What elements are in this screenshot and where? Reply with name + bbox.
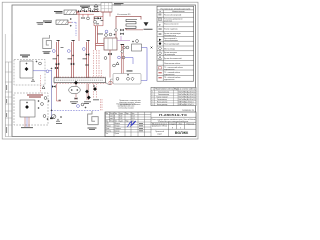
DB2 plus — [26, 102, 28, 104]
svg-text:Наименование: Наименование — [172, 11, 184, 13]
valve K10 — [52, 85, 56, 88]
svg-text:Место отбора: Место отбора — [164, 48, 175, 50]
left stamp strip — [5, 34, 12, 137]
valve K6 — [120, 29, 123, 31]
flare tree symbol — [93, 4, 98, 12]
heat exchanger E1 label — [54, 11, 63, 13]
wire red from E2 — [68, 21, 72, 23]
title block grid right — [151, 117, 196, 136]
DB2 red label — [27, 95, 43, 98]
svg-text:Насосный (напорный): Насосный (напорный) — [164, 13, 182, 16]
star K10 — [42, 86, 45, 89]
svg-text:загазованности: загазованности — [164, 35, 176, 37]
svg-text:трубопроводов не показана: трубопроводов не показана — [120, 104, 141, 106]
DB1 top symbols — [36, 61, 38, 63]
cooler coil — [125, 20, 137, 29]
instrument blue small — [105, 30, 108, 33]
outlet instrument red — [109, 81, 112, 84]
DB1 star — [32, 79, 35, 82]
riser R2 valve — [71, 63, 75, 66]
riser R1 instrument — [52, 50, 55, 53]
svg-text:Насос дозирующий: Насос дозирующий — [164, 43, 179, 46]
wire blue dashed from E2 — [72, 22, 77, 36]
svg-text:П-18: П-18 — [119, 118, 122, 120]
valve under pump — [75, 97, 78, 99]
svg-text:изм.2: изм.2 — [110, 118, 114, 120]
svg-text:№: № — [159, 10, 161, 13]
collector outlet — [106, 82, 109, 84]
valve K7 — [120, 33, 123, 35]
wire red into T1 — [96, 44, 105, 46]
valve K8 — [108, 53, 112, 56]
inner drawing frame — [12, 5, 196, 137]
DB2 blue drop — [26, 117, 28, 127]
svg-text:Петров: Петров — [115, 125, 120, 127]
triangle sym — [116, 62, 119, 65]
GV box — [132, 44, 142, 51]
red dashed risers to sensor line — [101, 99, 103, 110]
valve drop K3b — [82, 17, 85, 19]
gray coil W1 — [43, 35, 52, 49]
svg-text:Насос дозатор: Насос дозатор — [157, 101, 167, 103]
svg-text:Орлов: Орлов — [115, 133, 120, 135]
svg-text:Разраб.: Разраб. — [106, 125, 112, 127]
blue signature — [128, 121, 136, 127]
sensor S1 — [77, 105, 80, 108]
pump P1 marks — [71, 89, 73, 91]
PVK inst 2 — [127, 77, 130, 80]
svg-text:Иванов: Иванов — [115, 123, 120, 125]
svg-text:ГИП: ГИП — [106, 123, 109, 125]
labels under drops — [84, 100, 99, 104]
wire red from E1 — [77, 12, 80, 41]
instrument I2 — [94, 20, 97, 23]
red dashed stub above collector end — [100, 70, 102, 78]
riser R3 label — [83, 58, 88, 61]
valve K2 — [84, 10, 87, 12]
riser R2 instrument — [67, 50, 70, 53]
svg-text:Лист: Лист — [114, 113, 117, 115]
wire cooler out — [126, 28, 143, 30]
svg-text:Обозначение кабеля: Обозначение кабеля — [164, 63, 180, 65]
riser R0 — [56, 60, 58, 78]
x-mark at line end — [151, 47, 153, 49]
sensor S2 — [81, 103, 84, 106]
svg-text:отдел: отдел — [157, 133, 161, 135]
svg-text:Реконструкция здания литейного: Реконструкция здания литейного цеха. Узл… — [151, 118, 195, 121]
boiler label — [114, 3, 124, 5]
gray coil W2 — [88, 111, 99, 125]
plus darkblue — [51, 68, 53, 70]
pump M1 blade — [52, 115, 56, 118]
junction D1 — [74, 81, 78, 85]
darkblue end blob — [50, 118, 53, 120]
svg-text:№док: №док — [119, 113, 123, 115]
pump symbol M1 — [52, 114, 56, 118]
PVK inst 1 — [116, 77, 119, 80]
instrument under T1 — [104, 57, 107, 60]
valve K9 — [55, 67, 58, 69]
red dash drop left — [40, 75, 42, 93]
DB1 diamond valve — [25, 67, 29, 71]
svg-text:электроприводом: электроприводом — [164, 40, 179, 42]
svg-text:05.19: 05.19 — [131, 115, 135, 117]
svg-text:04.19: 04.19 — [131, 118, 135, 120]
coil W1 label — [43, 51, 51, 54]
DB1 label — [20, 55, 30, 58]
dashed box DB1 — [14, 60, 45, 86]
svg-text:Стадия: Стадия — [169, 123, 176, 125]
plus M1 — [60, 116, 62, 118]
darkblue drop — [51, 70, 53, 118]
svg-text:Сигнализатор: Сигнализатор — [157, 99, 167, 101]
riser R1 label — [53, 47, 64, 59]
DB2 drops — [25, 117, 29, 127]
DB2 bottom label — [21, 126, 33, 129]
svg-text:П-19: П-19 — [119, 115, 122, 117]
collector red dashes — [54, 77, 106, 84]
title block frame — [105, 112, 196, 137]
gas line top — [77, 11, 101, 17]
wire blue mid — [125, 58, 133, 65]
legend row texts — [164, 13, 183, 81]
blue dashed line bottom — [52, 109, 100, 111]
instrument I1b — [88, 8, 91, 11]
riser R3 instrument — [82, 48, 85, 51]
riser R1 valve — [56, 63, 60, 66]
DB1 plus — [26, 63, 28, 65]
riser R3 — [87, 40, 89, 78]
diamond on feed — [114, 28, 117, 32]
symbols above GV — [132, 41, 134, 43]
svg-text:подключения: подключения — [164, 69, 174, 71]
riser R1 plus — [57, 55, 59, 57]
red riser into T1 — [96, 26, 98, 50]
DB1 inner box — [20, 61, 33, 78]
pump P2 label — [43, 21, 52, 23]
svg-text:Газоанализатор: Газоанализатор — [158, 91, 169, 93]
R0 instrument — [46, 70, 49, 73]
svg-text:подключения: подключения — [164, 79, 174, 81]
red L drain — [57, 84, 62, 101]
M1 label — [56, 122, 62, 125]
svg-text:Дата: Дата — [131, 113, 134, 115]
hydroseal label — [80, 6, 90, 8]
drop D2 pair — [87, 84, 88, 100]
collector header — [54, 78, 106, 83]
tank funnel symbol — [144, 22, 149, 26]
valve K5 — [98, 17, 101, 19]
valve under T1 — [109, 50, 111, 78]
pump ellipse P1 — [69, 86, 81, 94]
label above T1 — [97, 33, 103, 36]
plus K9 — [56, 64, 58, 66]
riser R3 top tick — [87, 39, 90, 42]
PVK diamond — [131, 77, 134, 81]
node plus marks E2 — [70, 18, 72, 20]
diamond D2b — [87, 96, 91, 100]
DB2 right symbols — [43, 115, 46, 118]
cooler circuit maroon — [116, 16, 141, 38]
legend table frame — [157, 6, 194, 81]
left titleblock texts — [105, 113, 135, 123]
heat exchanger E1 — [64, 10, 77, 15]
svg-text:Сидоров: Сидоров — [115, 128, 121, 130]
instrument I1 — [82, 8, 85, 11]
svg-text:3: 3 — [180, 127, 181, 129]
svg-text:формате Visio: формате Visio — [152, 125, 167, 128]
wire maroon boiler down 2 — [94, 12, 110, 26]
svg-text:ВОЛЖК: ВОЛЖК — [175, 131, 190, 135]
svg-text:П-280519-ТХ: П-280519-ТХ — [182, 110, 195, 112]
heat exchanger E2 — [56, 20, 68, 24]
legend grid — [157, 10, 194, 81]
svg-text:выполнена условно, обвязка: выполнена условно, обвязка — [119, 102, 140, 104]
svg-text:реагентов: реагентов — [164, 20, 172, 22]
svg-text:Клапан задвижка: Клапан задвижка — [164, 29, 178, 31]
small label top-left — [37, 22, 44, 24]
svg-text:Листов: Листов — [186, 123, 194, 125]
riser R3 valve — [86, 53, 90, 56]
riser R1 — [57, 40, 59, 78]
svg-text:изм.1: изм.1 — [110, 115, 114, 117]
boiler grid box — [101, 3, 112, 12]
svg-text:сигнализации: сигнализации — [164, 54, 175, 56]
valve K3 — [90, 10, 93, 12]
riser R1 top tick — [57, 39, 60, 42]
node ticks top — [96, 20, 103, 24]
R4 diamond — [121, 50, 124, 54]
PVK box — [113, 74, 141, 85]
bottom-left cluster marks — [44, 97, 47, 100]
pump P1 label — [70, 102, 78, 104]
svg-text:Установка Ф5: Установка Ф5 — [117, 13, 131, 16]
DB2 inner box — [20, 100, 35, 117]
wire maroon boiler down 1 — [102, 12, 104, 17]
drop D1 below collector — [75, 82, 77, 100]
svg-text:Пров.: Пров. — [106, 128, 111, 130]
svg-text:Датчик беспламенный: Датчик беспламенный — [164, 57, 182, 60]
diamond D2a — [85, 90, 89, 94]
svg-text:Насос дозатор: Насос дозатор — [157, 104, 167, 106]
DB2 side symbols — [38, 100, 40, 102]
instruments above T1 — [105, 34, 108, 37]
legend symbols column — [158, 14, 161, 78]
red dashed drops — [94, 84, 97, 98]
wire purple from T1 — [117, 36, 130, 41]
wire blue DB1 out — [33, 70, 52, 72]
approval text block — [116, 103, 135, 110]
main tank T1 — [104, 38, 117, 50]
PVK plus — [127, 74, 129, 76]
svg-text:П-280519-ТХ: П-280519-ТХ — [159, 113, 187, 117]
svg-text:Лист: Лист — [114, 120, 117, 122]
DB2 diamond — [25, 105, 29, 109]
riser R2 — [72, 40, 74, 78]
title block grid left — [105, 112, 151, 137]
valve K1 — [78, 10, 81, 12]
green logo — [175, 131, 190, 135]
svg-text:Классы опасности: Классы опасности — [164, 24, 178, 26]
cooler label — [144, 28, 153, 31]
plus above T1 — [114, 34, 116, 36]
svg-text:Козлов: Козлов — [115, 130, 120, 132]
instrument drop I1c — [87, 17, 90, 20]
red dashed riser — [98, 50, 100, 78]
riser R2 label — [68, 58, 73, 61]
coil W2 label — [88, 128, 97, 130]
drain tick — [59, 99, 61, 102]
svg-text:№док: №док — [119, 120, 123, 122]
riser R3 valve2 — [86, 64, 89, 66]
riser R4 pair — [122, 45, 124, 74]
instruments cluster right-mid — [118, 56, 121, 59]
dashed box DB2 — [14, 93, 48, 125]
svg-text:Примечание: схема монтажа: Примечание: схема монтажа — [119, 100, 141, 102]
svg-text:Газоанализатор: Газоанализатор — [158, 94, 169, 96]
junction on dashed — [51, 109, 53, 111]
cluster marks right — [93, 85, 95, 87]
svg-text:Лист: Лист — [179, 123, 183, 125]
outer sheet border — [2, 2, 198, 139]
instruments left of GV — [123, 46, 126, 49]
instrument cluster T — [113, 64, 116, 67]
svg-text:подключения: подключения — [164, 74, 174, 76]
wire collector to PVK — [109, 79, 114, 85]
valve K4 — [94, 17, 97, 19]
riser R2 plus — [72, 55, 74, 57]
sensor marks — [85, 107, 87, 109]
stage cells — [152, 123, 194, 129]
svg-text:Н.контр.: Н.контр. — [106, 130, 112, 132]
star M1 — [57, 119, 60, 122]
wire blue GV to right — [141, 48, 147, 81]
left stamp vertical text marks — [5, 85, 8, 133]
R4 top tick — [121, 43, 125, 46]
riser R2 top tick — [72, 39, 75, 42]
PVK label — [127, 70, 133, 73]
